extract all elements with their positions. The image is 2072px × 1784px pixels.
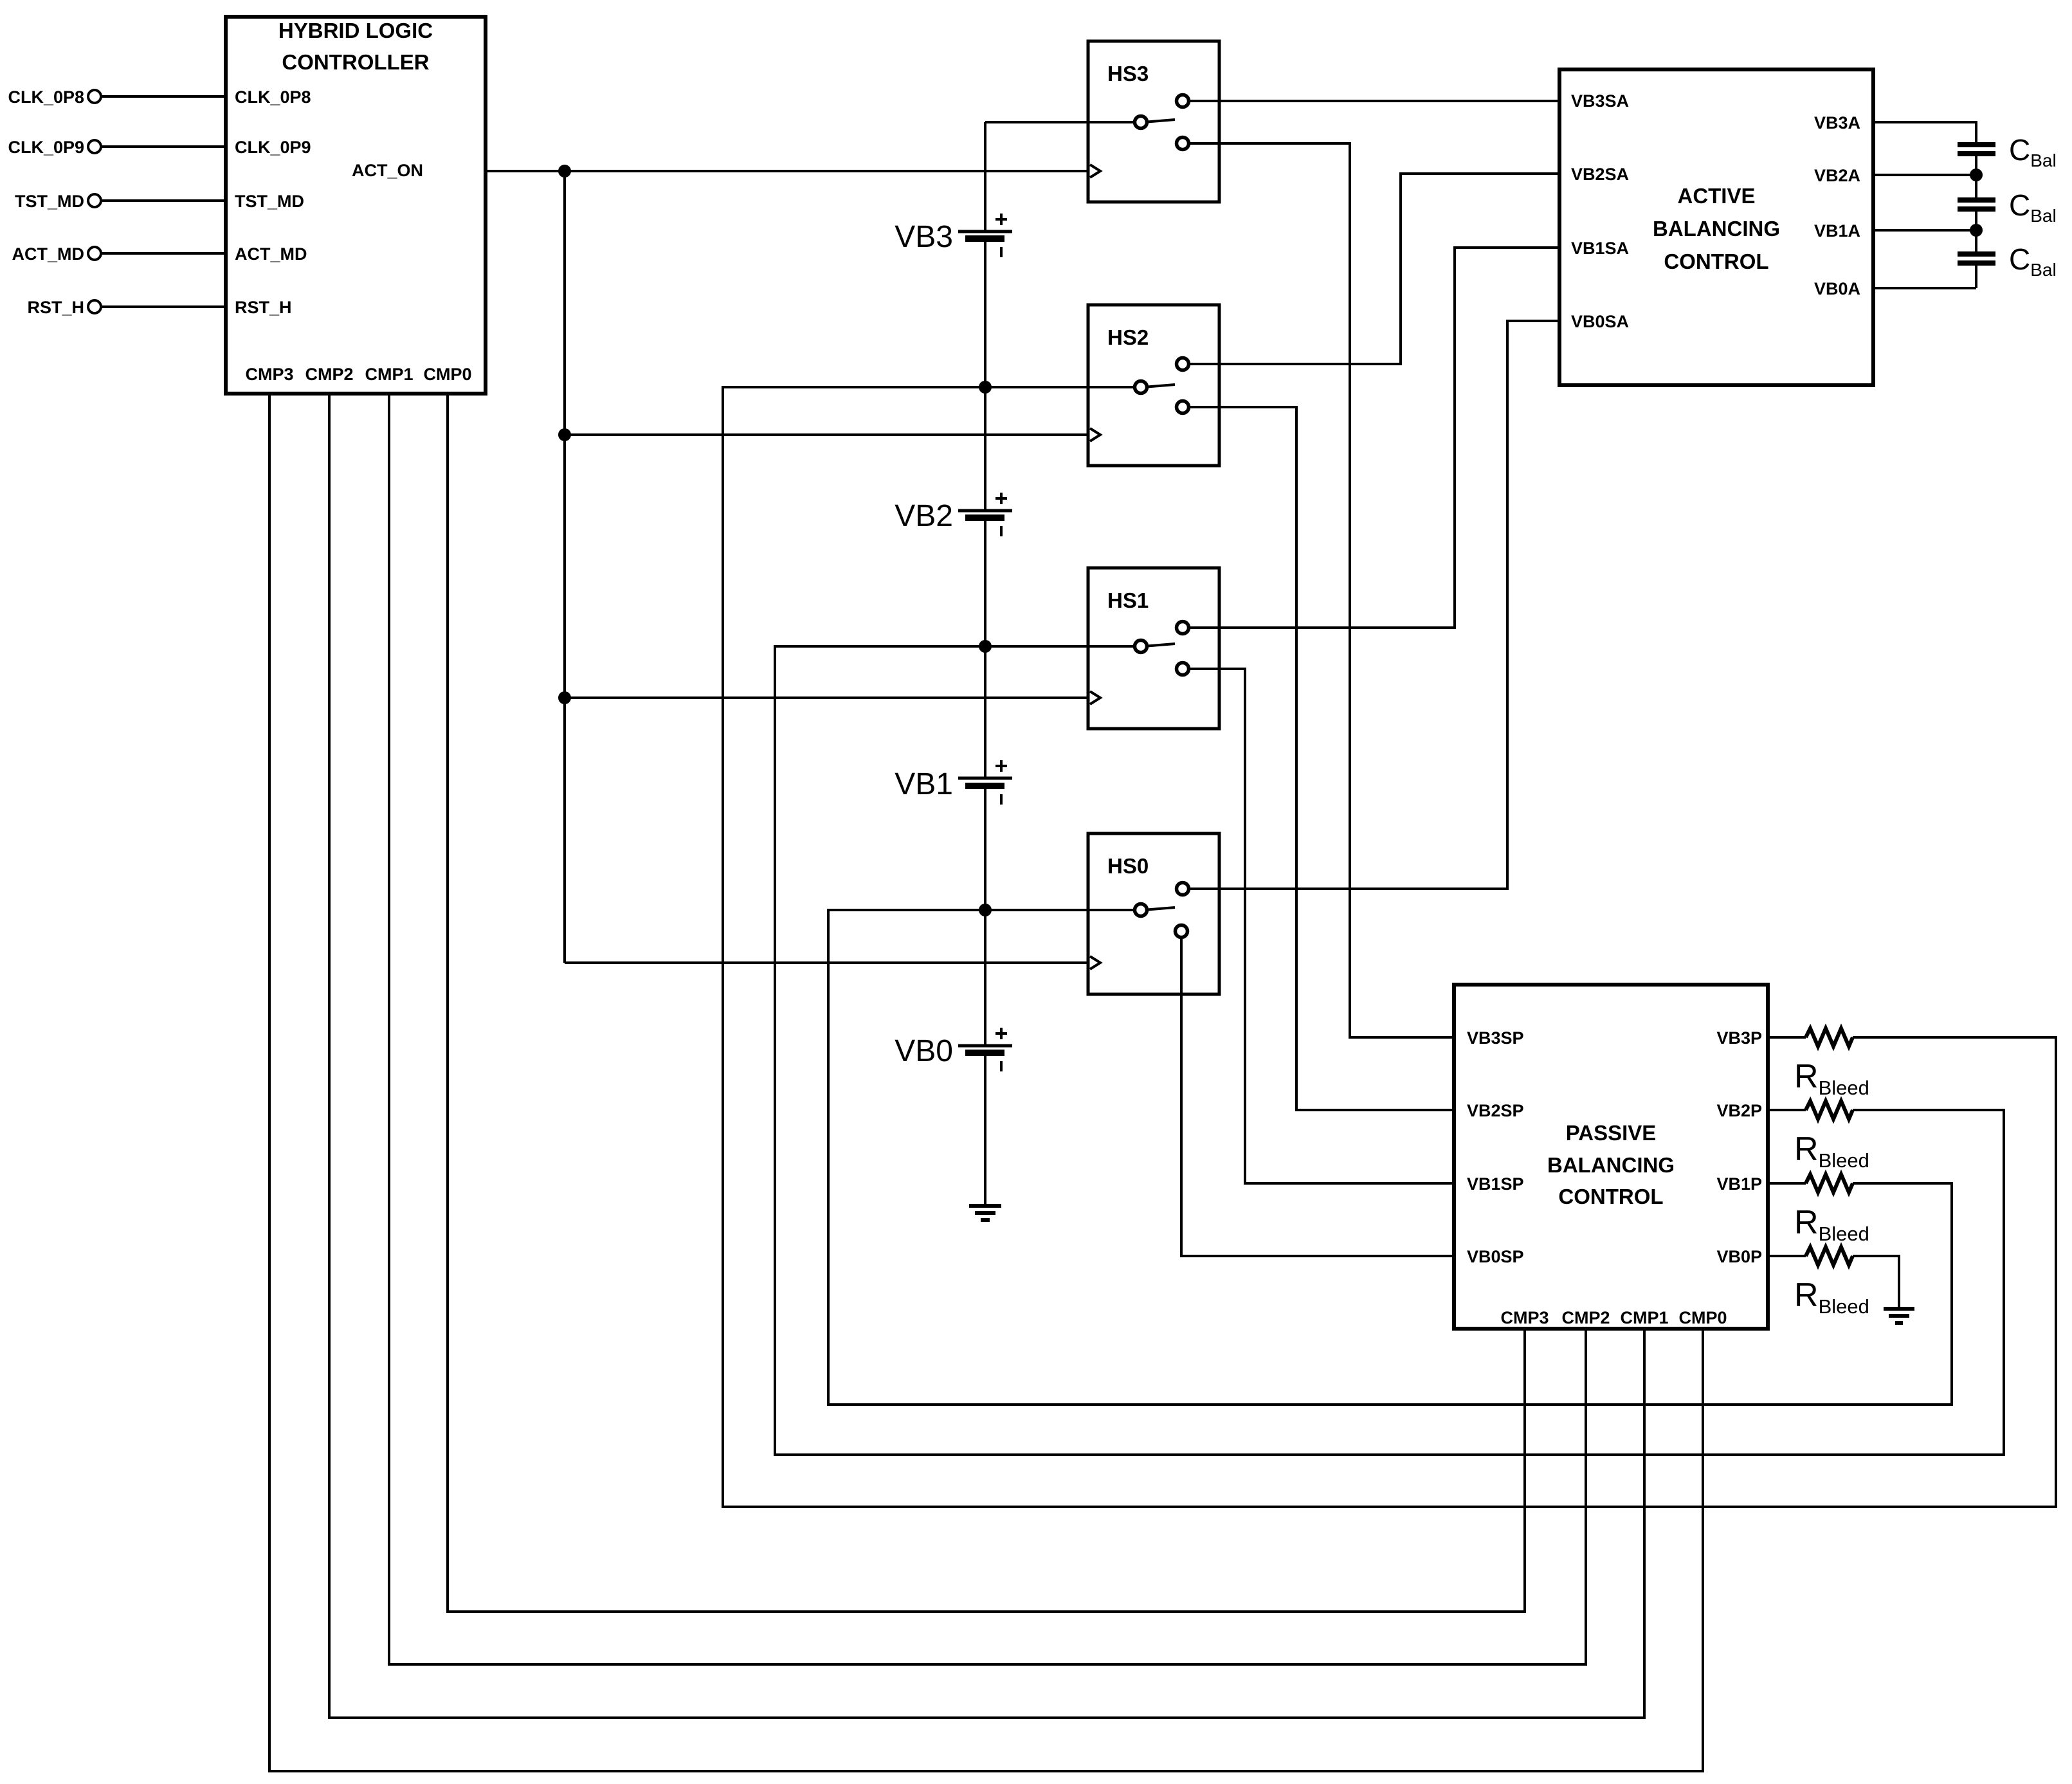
svg-text:CMP0: CMP0 [423, 365, 471, 384]
svg-text:BALANCING: BALANCING [1547, 1153, 1675, 1177]
label HS0 [1107, 854, 1149, 878]
junction node clock HS1 [558, 691, 571, 704]
label pin VB1SA [1571, 239, 1629, 258]
label pin CLK_0P9 [235, 138, 311, 157]
wire cap stack segment 1 [1975, 156, 1977, 197]
capacitor C_Bal bottom [1958, 254, 1995, 263]
wire net VB3P bleed return (R to node VB3-) [723, 387, 2056, 1507]
label controller pin CMP3 [245, 365, 293, 384]
wire net CMP1-CMP2 [389, 394, 1586, 1664]
svg-text:RST_H: RST_H [27, 298, 84, 317]
wire cap stack segment 2 [1975, 212, 1977, 251]
clock input HS0 [1090, 956, 1100, 969]
HS3 pole contact [1135, 116, 1147, 129]
switch box HS3 [1088, 41, 1219, 202]
wire net CMP2-CMP1 [329, 394, 1644, 1718]
battery VB0 [958, 1028, 1012, 1071]
clock input HS2 [1090, 428, 1100, 441]
terminal TST_MD [88, 194, 101, 207]
svg-text:VB3: VB3 [895, 220, 953, 254]
wire HS1 lever [1143, 644, 1175, 646]
wire clock branch to HS2 [565, 433, 1088, 436]
HS2 throw P contact [1177, 401, 1189, 414]
wire VB2A [1873, 174, 1976, 176]
svg-text:HS3: HS3 [1107, 62, 1149, 86]
wire input CLK_0P9 [101, 145, 226, 148]
wire HS0 throw P to VB0SP [1181, 931, 1454, 1256]
svg-text:ACT_ON: ACT_ON [352, 161, 423, 180]
label pin ACT_ON [352, 161, 423, 180]
wire input RST_H [101, 305, 226, 308]
label HS2 [1107, 325, 1149, 349]
svg-text:VB3SP: VB3SP [1467, 1028, 1524, 1048]
label HS1 [1107, 588, 1149, 612]
junction node VB2- battery [979, 640, 992, 653]
wire HS0 lever [1143, 907, 1175, 910]
HS3 throw A contact [1177, 95, 1189, 107]
svg-text:ACT_MD: ACT_MD [12, 244, 85, 264]
label pin VB1A [1814, 221, 1860, 241]
wire net CMP3-CMP0 [269, 394, 1703, 1771]
HS2 pole contact [1135, 381, 1147, 394]
label capacitor C_Bal middle [2009, 188, 2057, 226]
svg-text:VB2A: VB2A [1814, 166, 1860, 185]
svg-text:VB1A: VB1A [1814, 221, 1860, 241]
HS1 throw P contact [1177, 663, 1189, 675]
HS0 throw A contact [1177, 883, 1189, 895]
capacitor C_Bal middle [1958, 200, 1995, 209]
label controller pin CMP0 [423, 365, 471, 384]
label battery VB0 [895, 1034, 953, 1068]
label capacitor C_Bal bottom [2009, 242, 2057, 280]
label resistor R_Bleed VB1P [1794, 1204, 1869, 1245]
svg-text:VB1SP: VB1SP [1467, 1174, 1524, 1194]
svg-text:VB1: VB1 [895, 767, 953, 801]
label resistor R_Bleed VB0P [1794, 1277, 1869, 1318]
svg-text:VB0: VB0 [895, 1034, 953, 1068]
label pin VB2SP [1467, 1101, 1524, 1120]
hybrid logic controller U1 [226, 17, 486, 394]
label pin VB1P [1716, 1174, 1762, 1194]
svg-text:VB2SP: VB2SP [1467, 1101, 1524, 1120]
svg-text:ACT_MD: ACT_MD [235, 244, 307, 264]
label pin RST_H [235, 298, 292, 317]
svg-text:VB0SA: VB0SA [1571, 312, 1629, 331]
clock input HS3 [1090, 165, 1100, 177]
svg-text:CMP2: CMP2 [305, 365, 353, 384]
HS1 pole contact [1135, 641, 1147, 653]
svg-text:CLK_0P8: CLK_0P8 [8, 87, 84, 107]
switch box HS0 [1088, 833, 1219, 994]
wire HS3 throw A to VB3SA [1183, 100, 1559, 102]
svg-text:CLK_0P9: CLK_0P9 [235, 138, 311, 157]
wire HS3 lever [1143, 120, 1175, 122]
wire ACT_ON from controller to HS3 clock [486, 170, 1088, 172]
wire HS3 throw P to VB3SP [1183, 143, 1454, 1037]
svg-text:VB3A: VB3A [1814, 113, 1860, 132]
junction node VB3- battery [979, 381, 992, 394]
svg-text:CONTROL: CONTROL [1664, 250, 1768, 273]
wire HS0 throw A to VB0SA [1183, 321, 1559, 889]
resistor R_Bleed VB2P [1768, 1101, 1853, 1119]
terminal RST_H [88, 300, 101, 313]
svg-text:CMP1: CMP1 [365, 365, 413, 384]
label resistor R_Bleed VB2P [1794, 1131, 1869, 1172]
wire net VB1P bleed return (R to node VB1-) [828, 910, 1952, 1405]
label battery VB3 [895, 220, 953, 254]
wire HS2 throw P to VB2SP [1183, 407, 1454, 1110]
svg-text:PASSIVE: PASSIVE [1566, 1121, 1657, 1145]
label active balancing title [1653, 184, 1780, 273]
svg-text:CLK_0P8: CLK_0P8 [235, 87, 311, 107]
wire cap stack segment 3 [1975, 266, 1977, 288]
HS2 throw A contact [1177, 358, 1189, 370]
label passive pin CMP2 [1561, 1308, 1610, 1327]
HS0 throw P contact [1176, 925, 1188, 938]
HS1 throw A contact [1177, 622, 1189, 634]
label pin VB1SP [1467, 1174, 1524, 1194]
svg-text:ACTIVE: ACTIVE [1677, 184, 1755, 208]
junction node ACT_ON branch [558, 165, 571, 177]
svg-text:CONTROLLER: CONTROLLER [282, 50, 429, 74]
passive balancing control U3 [1454, 985, 1768, 1329]
battery VB2 [958, 493, 1012, 536]
label pin VB3P [1716, 1028, 1762, 1048]
wire input TST_MD [101, 199, 226, 202]
svg-text:CMP0: CMP0 [1678, 1308, 1727, 1327]
label pin ACT_MD [235, 244, 307, 264]
ground VB0P bleed [1884, 1309, 1914, 1323]
active balancing control U2 [1559, 69, 1873, 385]
svg-text:TST_MD: TST_MD [235, 192, 304, 211]
label battery VB1 [895, 767, 953, 801]
svg-text:VB2P: VB2P [1716, 1101, 1762, 1120]
svg-text:HS1: HS1 [1107, 588, 1149, 612]
svg-text:VB2: VB2 [895, 499, 953, 533]
wire input CLK_0P8 [101, 95, 226, 98]
label passive balancing title [1547, 1121, 1675, 1208]
wire HS3 pole from battery top node [985, 121, 1141, 123]
label HS3 [1107, 62, 1149, 86]
label pin VB0SA [1571, 312, 1629, 331]
svg-text:CMP2: CMP2 [1561, 1308, 1610, 1327]
HS3 throw P contact [1177, 138, 1189, 150]
label terminal TST_MD [15, 192, 84, 211]
label passive pin CMP0 [1678, 1308, 1727, 1327]
label pin CLK_0P8 [235, 87, 311, 107]
label pin VB2SA [1571, 165, 1629, 184]
label terminal CLK_0P9 [8, 138, 84, 157]
label pin VB0P [1716, 1247, 1762, 1266]
junction node VB1- battery [979, 904, 992, 916]
wire HS2 lever [1143, 385, 1175, 387]
battery VB3 [958, 214, 1012, 257]
junction node clock HS2 [558, 428, 571, 441]
label passive pin CMP3 [1500, 1308, 1549, 1327]
switch box HS2 [1088, 305, 1219, 466]
svg-text:CMP3: CMP3 [1500, 1308, 1549, 1327]
ground battery stack [969, 1206, 1001, 1220]
wire net CMP0-CMP3 [448, 394, 1525, 1612]
svg-text:CLK_0P9: CLK_0P9 [8, 138, 84, 157]
label terminal RST_H [27, 298, 84, 317]
label pin VB3SP [1467, 1028, 1524, 1048]
terminal CLK_0P9 [88, 140, 101, 153]
svg-text:VB0SP: VB0SP [1467, 1247, 1524, 1266]
wire net VB2P bleed return (R to node VB2-) [775, 646, 2004, 1455]
label pin VB3SA [1571, 91, 1629, 111]
label controller pin CMP1 [365, 365, 413, 384]
svg-text:CONTROL: CONTROL [1558, 1185, 1663, 1208]
switch box HS1 [1088, 568, 1219, 729]
label pin VB0A [1814, 279, 1860, 298]
wire input ACT_MD [101, 252, 226, 255]
svg-text:VB0P: VB0P [1716, 1247, 1762, 1266]
battery VB1 [958, 760, 1012, 805]
resistor R_Bleed VB1P [1768, 1174, 1853, 1192]
label terminal CLK_0P8 [8, 87, 84, 107]
label passive pin CMP1 [1620, 1308, 1668, 1327]
label capacitor C_Bal top [2009, 133, 2057, 170]
wire net VB0P to ground [1853, 1256, 1899, 1307]
svg-text:TST_MD: TST_MD [15, 192, 84, 211]
label controller title [278, 19, 433, 74]
terminal ACT_MD [88, 247, 101, 260]
capacitor C_Bal top [1958, 145, 1995, 154]
svg-text:CMP3: CMP3 [245, 365, 293, 384]
terminal CLK_0P8 [88, 90, 101, 103]
svg-text:VB2SA: VB2SA [1571, 165, 1629, 184]
svg-text:CMP1: CMP1 [1620, 1308, 1668, 1327]
wire ACT_ON vertical branch [563, 171, 566, 963]
svg-text:BALANCING: BALANCING [1653, 217, 1780, 241]
wire HS1 throw P to VB1SP [1183, 669, 1454, 1183]
label pin VB2A [1814, 166, 1860, 185]
wire clock branch to HS1 [565, 696, 1088, 699]
label pin VB2P [1716, 1101, 1762, 1120]
label battery VB2 [895, 499, 953, 533]
label pin VB3A [1814, 113, 1860, 132]
wire HS2 throw A to VB2SA [1183, 174, 1559, 364]
svg-text:HS0: HS0 [1107, 854, 1149, 878]
wire VB1A [1873, 229, 1976, 232]
label controller pin CMP2 [305, 365, 353, 384]
svg-text:VB3SA: VB3SA [1571, 91, 1629, 111]
svg-text:VB0A: VB0A [1814, 279, 1860, 298]
clock input HS1 [1090, 691, 1100, 704]
svg-text:HS2: HS2 [1107, 325, 1149, 349]
label terminal ACT_MD [12, 244, 85, 264]
wire VB3A to cap stack [1873, 122, 1976, 142]
resistor R_Bleed VB0P [1768, 1247, 1853, 1265]
wire clock branch to HS0 [565, 961, 1088, 964]
label resistor R_Bleed VB3P [1794, 1058, 1869, 1099]
label pin VB0SP [1467, 1247, 1524, 1266]
svg-text:HYBRID LOGIC: HYBRID LOGIC [278, 19, 433, 42]
junction node cap VB1A [1970, 224, 1983, 237]
wire VB0A [1873, 287, 1976, 289]
HS0 pole contact [1135, 904, 1147, 916]
resistor R_Bleed VB3P [1768, 1028, 1853, 1046]
svg-text:VB1P: VB1P [1716, 1174, 1762, 1194]
wire battery stack [984, 122, 986, 1206]
svg-text:VB1SA: VB1SA [1571, 239, 1629, 258]
svg-text:VB3P: VB3P [1716, 1028, 1762, 1048]
wire HS1 throw A to VB1SA [1183, 248, 1559, 628]
label pin TST_MD [235, 192, 304, 211]
junction node cap VB2A [1970, 168, 1983, 181]
svg-text:RST_H: RST_H [235, 298, 292, 317]
